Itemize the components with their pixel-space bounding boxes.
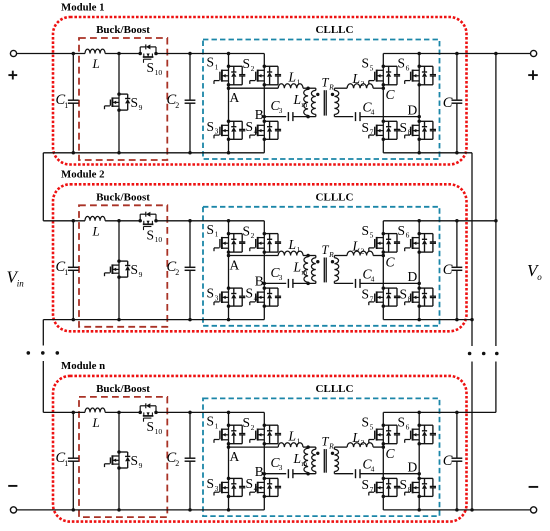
bridge leg S2-S4	[263, 412, 265, 510]
svg-text:m: m	[301, 100, 307, 109]
wire node B to C3	[264, 282, 286, 284]
svg-text:4: 4	[254, 127, 258, 136]
plus sign output	[528, 74, 538, 76]
svg-text:L: L	[293, 260, 302, 275]
svg-text:2: 2	[251, 231, 255, 240]
svg-text:S: S	[207, 476, 215, 491]
svg-text:2: 2	[175, 268, 179, 277]
bridge leg S5-S7	[382, 54, 384, 153]
svg-text:R: R	[328, 250, 334, 259]
svg-text:1: 1	[215, 230, 219, 239]
svg-text:S: S	[243, 223, 251, 238]
capacitor C3	[287, 469, 289, 478]
transformer TR secondary winding	[333, 447, 335, 449]
transformer TR primary winding	[315, 88, 317, 90]
svg-text:1: 1	[215, 421, 219, 430]
svg-text:L: L	[92, 56, 100, 71]
svg-text:S: S	[362, 414, 370, 429]
wire top left	[17, 53, 85, 55]
transformer TR secondary winding	[333, 256, 335, 258]
wire top right	[383, 220, 496, 222]
module n border	[53, 376, 467, 522]
svg-text:A: A	[230, 257, 240, 272]
bridge leg S1-S3	[228, 54, 230, 153]
svg-text:Buck/Boost: Buck/Boost	[96, 383, 150, 395]
svg-text:S: S	[398, 56, 406, 71]
svg-text:o: o	[537, 272, 542, 282]
wire C4 to node D	[360, 473, 419, 475]
switch S9	[118, 412, 120, 510]
inductor L2	[347, 84, 373, 88]
svg-text:Buck/Boost: Buck/Boost	[96, 24, 150, 36]
svg-text:L: L	[293, 92, 302, 107]
svg-text:S: S	[131, 95, 139, 110]
svg-text:Module 2: Module 2	[61, 169, 105, 181]
wire secondary to C4	[334, 282, 353, 284]
capacitor C2	[189, 412, 191, 458]
svg-text:2: 2	[175, 101, 179, 110]
wire C3 to Lm	[293, 473, 316, 475]
bridge leg S2-S4	[263, 54, 265, 153]
svg-text:8: 8	[408, 295, 412, 304]
svg-text:S: S	[147, 227, 155, 242]
svg-text:D: D	[408, 269, 418, 284]
node B	[263, 472, 267, 476]
CLLLC box	[203, 40, 440, 160]
wire S10 to bridge	[156, 53, 264, 55]
wire S10 to bridge	[156, 411, 264, 413]
svg-text:C: C	[443, 95, 453, 111]
svg-text:C: C	[386, 446, 396, 461]
wire L1 to transformer	[303, 87, 316, 89]
mosfet S3	[227, 286, 231, 290]
svg-text:A: A	[230, 90, 240, 105]
mosfet S4	[263, 477, 267, 481]
svg-text:9: 9	[139, 103, 143, 112]
wire S10 to bridge	[156, 220, 264, 222]
svg-text:5: 5	[370, 63, 374, 72]
mosfet S4	[263, 120, 267, 124]
right ellipsis dots	[468, 352, 472, 356]
svg-text:S: S	[207, 119, 215, 134]
svg-text:S: S	[398, 223, 406, 238]
primary polarity dot	[316, 93, 319, 96]
mosfet S4	[263, 286, 267, 290]
svg-text:S: S	[362, 223, 370, 238]
mosfet S8	[417, 120, 421, 124]
node D	[417, 282, 421, 286]
node B	[263, 115, 267, 119]
mosfet S6	[417, 65, 421, 69]
mosfet S7	[382, 120, 386, 124]
primary polarity dot	[316, 452, 319, 455]
wire bottom right	[383, 509, 530, 511]
node C	[382, 254, 386, 258]
wire C4 to node D	[360, 282, 419, 284]
mosfet S8	[417, 286, 421, 290]
CLLLC box	[203, 207, 440, 326]
mosfet S6	[417, 232, 421, 236]
output terminal -	[531, 507, 537, 513]
svg-text:10: 10	[155, 68, 163, 77]
svg-text:S: S	[207, 286, 215, 301]
magnetizing inductor Lm	[304, 448, 308, 472]
node D	[417, 115, 421, 119]
capacitor C3	[287, 112, 289, 121]
transformer TR primary winding	[315, 447, 317, 449]
inductor L	[85, 408, 105, 412]
bridge leg S6-S8	[418, 54, 420, 153]
svg-text:D: D	[408, 102, 418, 117]
svg-text:10: 10	[155, 427, 163, 436]
svg-text:L: L	[288, 429, 297, 444]
inductor L	[85, 216, 105, 220]
bridge leg S6-S8	[418, 412, 420, 510]
mosfet S1	[227, 65, 231, 69]
inductor L1	[278, 443, 303, 447]
svg-text:L: L	[92, 415, 100, 430]
svg-text:4: 4	[254, 484, 258, 493]
svg-text:S: S	[400, 287, 408, 302]
bridge leg S1-S3	[228, 221, 230, 320]
transformer core	[323, 258, 325, 283]
capacitor C3	[287, 279, 289, 288]
wire bottom left	[43, 152, 264, 154]
wire L1 to transformer	[303, 255, 316, 257]
wire L2 to node C	[373, 446, 383, 448]
switch S10	[138, 411, 142, 415]
svg-text:S: S	[362, 120, 370, 135]
wire node A to L1	[229, 87, 279, 89]
svg-text:1: 1	[64, 459, 68, 468]
svg-text:6: 6	[406, 422, 410, 431]
svg-text:C: C	[386, 254, 396, 269]
svg-text:3: 3	[279, 463, 283, 472]
svg-text:S: S	[207, 55, 215, 70]
inductor L	[85, 49, 105, 53]
wire bottom right	[383, 319, 472, 321]
wire secondary to L2	[334, 87, 347, 89]
svg-text:1: 1	[297, 437, 301, 446]
node C	[382, 445, 386, 449]
wire secondary to C4	[334, 473, 353, 475]
svg-text:4: 4	[254, 294, 258, 303]
svg-text:S: S	[362, 477, 370, 492]
node B	[263, 282, 267, 286]
svg-text:S: S	[243, 56, 251, 71]
svg-text:5: 5	[370, 231, 374, 240]
Buck/Boost box	[79, 397, 167, 517]
switch S9	[118, 221, 120, 320]
svg-text:L: L	[288, 237, 297, 252]
transformer core	[323, 90, 325, 115]
wire inner bus module bottoms (-)	[471, 153, 473, 346]
svg-text:4: 4	[371, 108, 375, 117]
svg-text:S: S	[246, 476, 254, 491]
wire L1 to transformer	[303, 446, 316, 448]
svg-text:C: C	[386, 87, 396, 102]
left ellipsis dots	[27, 351, 31, 355]
svg-text:2: 2	[361, 438, 365, 447]
wire node B to C3	[264, 116, 286, 118]
svg-text:R: R	[328, 442, 334, 451]
mosfet S1	[227, 423, 231, 427]
module 2 border	[53, 184, 467, 331]
capacitor C2	[189, 54, 191, 101]
svg-text:9: 9	[139, 270, 143, 279]
Buck/Boost box	[79, 38, 167, 160]
output terminal - (input side)	[10, 507, 16, 513]
svg-text:L: L	[352, 239, 361, 254]
output capacitor C	[456, 221, 458, 267]
svg-text:D: D	[408, 460, 418, 475]
wire L2 to node C	[373, 87, 383, 89]
capacitor C1	[72, 221, 74, 267]
svg-text:1: 1	[64, 101, 68, 110]
capacitor C4	[355, 469, 357, 478]
svg-text:S: S	[243, 415, 251, 430]
svg-text:m: m	[301, 267, 307, 276]
wire left bus module2 bottom down	[42, 320, 44, 346]
svg-text:in: in	[17, 279, 25, 289]
node C	[382, 86, 386, 90]
svg-text:4: 4	[371, 465, 375, 474]
capacitor C1	[72, 412, 74, 458]
wire top right	[383, 53, 530, 55]
inductor L1	[278, 251, 303, 255]
bridge leg S1-S3	[228, 412, 230, 510]
bridge leg S5-S7	[382, 221, 384, 320]
minus sign input	[8, 485, 17, 487]
svg-text:1: 1	[297, 78, 301, 87]
svg-text:S: S	[246, 119, 254, 134]
output capacitor C	[456, 412, 458, 458]
capacitor C4	[355, 112, 357, 121]
svg-text:2: 2	[251, 64, 255, 73]
svg-text:S: S	[131, 262, 139, 277]
mosfet S2	[263, 423, 267, 427]
svg-text:7: 7	[370, 128, 374, 137]
svg-text:S: S	[246, 286, 254, 301]
svg-text:S: S	[398, 414, 406, 429]
wire L to S10	[105, 220, 140, 222]
node A	[227, 254, 231, 258]
secondary polarity dot	[331, 260, 334, 263]
inductor L2	[347, 251, 373, 255]
capacitor C2	[189, 221, 191, 267]
wire top left from bus	[43, 411, 85, 413]
capacitor C4	[355, 279, 357, 288]
svg-text:5: 5	[370, 422, 374, 431]
primary polarity dot	[316, 260, 319, 263]
output terminal +	[531, 50, 537, 56]
wire outer bus module tops (+)	[495, 54, 497, 347]
wire node A to L1	[229, 255, 279, 257]
Buck/Boost box	[79, 205, 167, 326]
mosfet S8	[417, 477, 421, 481]
svg-text:2: 2	[175, 459, 179, 468]
mosfet S5	[382, 423, 386, 427]
mosfet S7	[382, 286, 386, 290]
mosfet S6	[417, 423, 421, 427]
svg-text:Module n: Module n	[61, 360, 105, 372]
svg-text:S: S	[400, 477, 408, 492]
inductor L2	[347, 443, 373, 447]
svg-text:L: L	[288, 70, 297, 85]
output capacitor C	[456, 54, 458, 101]
secondary polarity dot	[331, 452, 334, 455]
svg-text:3: 3	[279, 106, 283, 115]
svg-text:2: 2	[361, 246, 365, 255]
magnetizing inductor Lm	[304, 89, 308, 115]
svg-text:S: S	[207, 413, 215, 428]
mosfet S2	[263, 65, 267, 69]
wire L to S10	[105, 53, 140, 55]
svg-text:L: L	[352, 430, 361, 445]
wire C4 to node D	[360, 116, 419, 118]
svg-text:3: 3	[215, 294, 219, 303]
mosfet S2	[263, 232, 267, 236]
transformer TR secondary winding	[333, 88, 335, 90]
module 1 border	[53, 17, 467, 165]
svg-text:B: B	[255, 464, 264, 479]
node D	[417, 472, 421, 476]
switch S9	[118, 54, 120, 153]
transformer core	[323, 449, 325, 473]
wire bottom left	[17, 509, 265, 511]
svg-text:S: S	[207, 222, 215, 237]
wire left bus module1 bottom to module2 top	[42, 153, 44, 221]
minus sign output	[529, 486, 539, 488]
wire bottom left	[43, 319, 264, 321]
wire secondary to L2	[334, 446, 347, 448]
svg-text:4: 4	[371, 274, 375, 283]
magnetizing inductor Lm	[304, 257, 308, 283]
svg-text:7: 7	[370, 485, 374, 494]
svg-text:CLLLC: CLLLC	[316, 383, 354, 395]
svg-text:1: 1	[215, 62, 219, 71]
inductor L1	[278, 84, 303, 88]
svg-text:S: S	[147, 419, 155, 434]
svg-text:8: 8	[408, 128, 412, 137]
svg-text:Module 1: Module 1	[61, 1, 105, 13]
svg-text:S: S	[147, 60, 155, 75]
svg-text:3: 3	[279, 273, 283, 282]
svg-text:10: 10	[155, 235, 163, 244]
node A	[227, 445, 231, 449]
node A	[227, 86, 231, 90]
wire node A to L1	[229, 446, 279, 448]
plus sign input	[8, 74, 17, 76]
svg-text:3: 3	[215, 127, 219, 136]
wire inner bus lower segment	[471, 362, 473, 510]
input terminal +	[10, 50, 16, 56]
wire top right	[383, 411, 496, 413]
mosfet S3	[227, 120, 231, 124]
svg-text:2: 2	[251, 423, 255, 432]
svg-text:CLLLC: CLLLC	[316, 191, 354, 203]
bridge leg S2-S4	[263, 221, 265, 320]
svg-text:6: 6	[406, 63, 410, 72]
mosfet S7	[382, 477, 386, 481]
svg-text:B: B	[255, 107, 264, 122]
wire C3 to Lm	[293, 282, 316, 284]
svg-text:C: C	[443, 262, 453, 278]
svg-text:9: 9	[139, 461, 143, 470]
capacitor C1	[72, 54, 74, 101]
mosfet S5	[382, 232, 386, 236]
wire L to S10	[105, 411, 140, 413]
wire left bus to module n top	[42, 361, 44, 412]
wire node B to C3	[264, 473, 286, 475]
svg-text:R: R	[328, 83, 334, 92]
wire L2 to node C	[373, 255, 383, 257]
switch S10	[138, 219, 142, 223]
svg-text:Buck/Boost: Buck/Boost	[96, 191, 150, 203]
svg-text:L: L	[352, 71, 361, 86]
mosfet S5	[382, 65, 386, 69]
mosfet S3	[227, 477, 231, 481]
transformer TR primary winding	[315, 256, 317, 258]
svg-text:7: 7	[370, 295, 374, 304]
svg-text:CLLLC: CLLLC	[316, 24, 354, 36]
svg-text:2: 2	[361, 79, 365, 88]
wire C3 to Lm	[293, 116, 316, 118]
bridge leg S6-S8	[418, 221, 420, 320]
svg-text:6: 6	[406, 231, 410, 240]
svg-text:S: S	[131, 453, 139, 468]
secondary polarity dot	[331, 93, 334, 96]
wire secondary to C4	[334, 116, 353, 118]
bridge leg S5-S7	[382, 412, 384, 510]
svg-text:B: B	[255, 274, 264, 289]
switch S10	[138, 52, 142, 56]
wire bottom right	[383, 152, 472, 154]
wire top left from bus	[43, 220, 85, 222]
svg-text:1: 1	[297, 245, 301, 254]
svg-text:C: C	[443, 453, 453, 469]
svg-text:A: A	[230, 449, 240, 464]
svg-text:S: S	[362, 56, 370, 71]
svg-text:S: S	[400, 120, 408, 135]
svg-text:8: 8	[408, 485, 412, 494]
wire secondary to L2	[334, 255, 347, 257]
svg-text:S: S	[362, 287, 370, 302]
svg-text:1: 1	[64, 268, 68, 277]
svg-text:m: m	[301, 459, 307, 468]
mosfet S1	[227, 232, 231, 236]
svg-text:L: L	[293, 451, 302, 466]
wire outer bus lower segment	[495, 362, 497, 413]
svg-text:3: 3	[215, 484, 219, 493]
CLLLC box	[203, 398, 440, 516]
svg-text:L: L	[92, 224, 100, 239]
